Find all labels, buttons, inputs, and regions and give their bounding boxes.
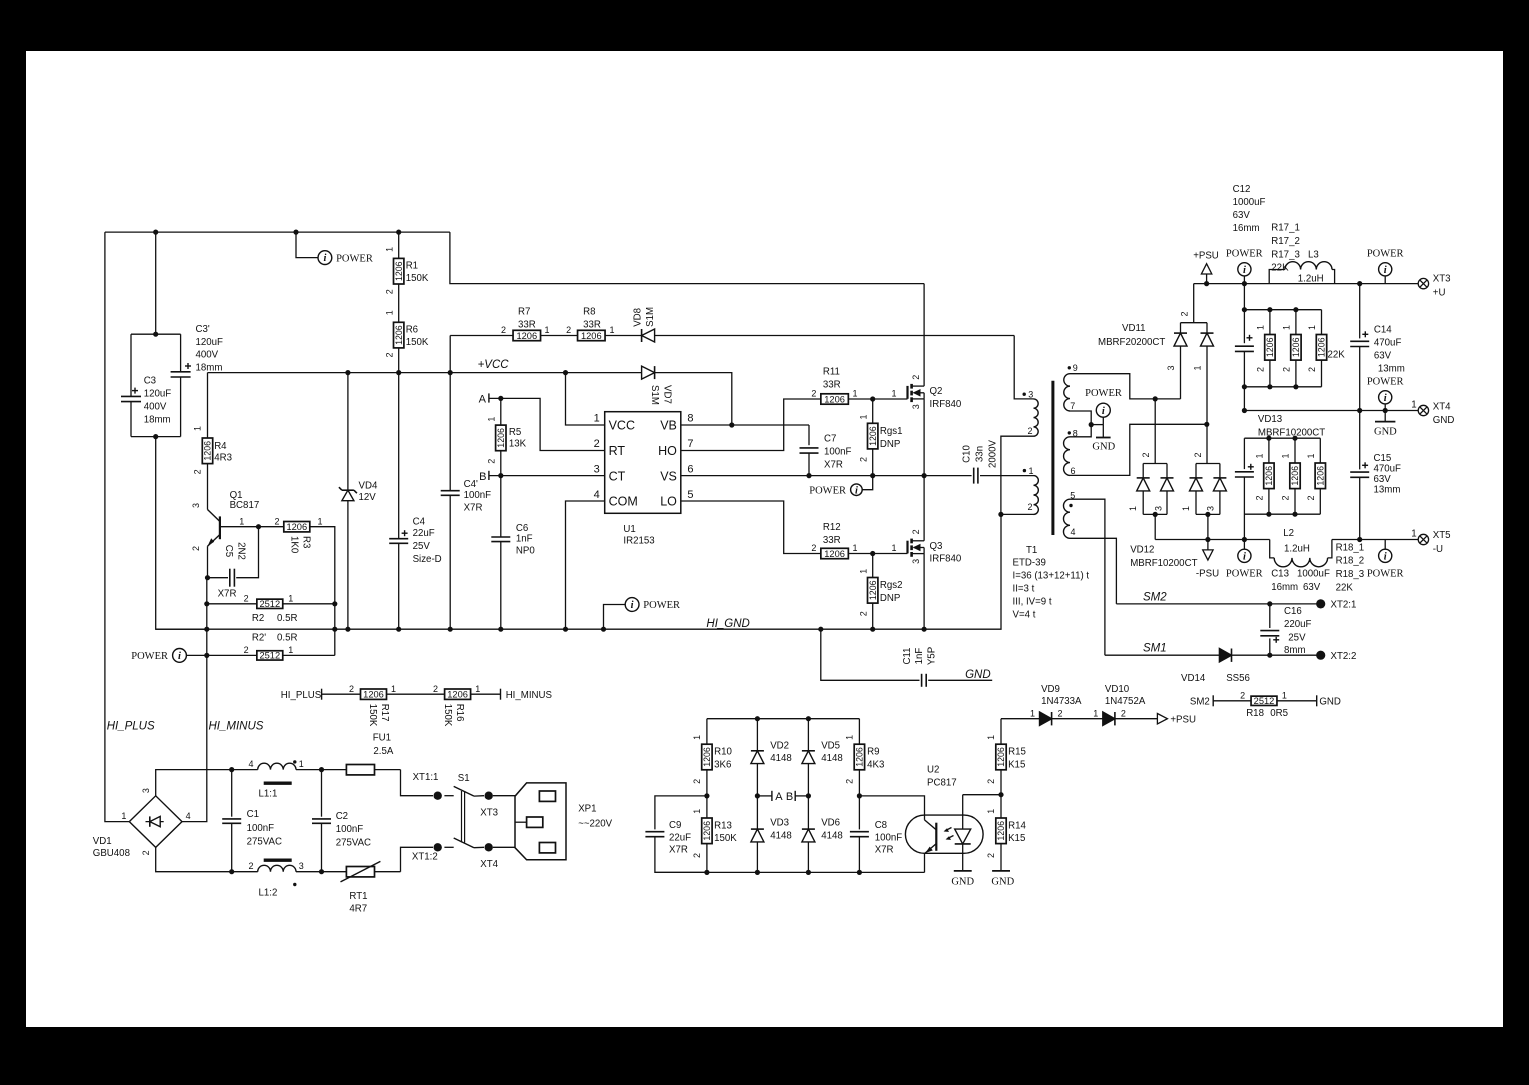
svg-text:I=36 (13+12+11) t: I=36 (13+12+11) t [1013,571,1090,582]
wire VD8 to T1 pin3 [1014,336,1033,399]
svg-text:2: 2 [1180,311,1190,316]
svg-text:~~220V: ~~220V [578,818,612,829]
power probe POWER at GND line [1384,404,1386,411]
svg-text:2.5A: 2.5A [373,746,393,757]
svg-text:i: i [1384,551,1387,562]
svg-text:150K: 150K [442,704,453,727]
svg-text:MBRF10200CT: MBRF10200CT [1130,558,1197,569]
svg-text:1206: 1206 [203,441,213,461]
svg-text:63V: 63V [1233,210,1251,221]
resistor R17_1 [1269,310,1271,335]
svg-text:X7R: X7R [464,502,483,513]
svg-text:4148: 4148 [821,753,843,764]
svg-text:A: A [775,791,783,803]
svg-text:2: 2 [192,469,202,474]
svg-text:HI_PLUS: HI_PLUS [107,721,155,733]
resistor R15 K15 [1000,719,1002,745]
svg-text:100nF: 100nF [336,824,364,835]
svg-text:VD2: VD2 [770,740,789,751]
wire R3 to R2 right node [310,527,335,656]
svg-text:1: 1 [853,389,858,399]
svg-text:1: 1 [1307,325,1317,330]
svg-text:R12: R12 [823,522,841,533]
svg-text:+PSU: +PSU [1170,714,1196,725]
svg-text:R18_3: R18_3 [1336,569,1365,580]
svg-text:HO: HO [658,444,677,458]
svg-text:2: 2 [191,546,201,551]
svg-text:1: 1 [1282,325,1292,330]
svg-text:1: 1 [891,389,896,399]
svg-text:C1: C1 [247,809,259,820]
svg-text:VD10: VD10 [1105,684,1130,695]
svg-text:GND: GND [951,876,974,887]
resistor R4 [207,373,209,438]
svg-text:II=3 t: II=3 t [1013,584,1035,595]
inductor L1:1 [229,767,234,772]
svg-text:MBRF20200CT: MBRF20200CT [1098,337,1165,348]
net -PSU arrow [1205,537,1210,542]
connector XP1 ~~220V [493,795,540,797]
svg-text:-PSU: -PSU [1196,568,1219,579]
svg-text:2: 2 [1256,367,1266,372]
svg-text:B: B [786,791,793,803]
svg-text:R17_1: R17_1 [1271,223,1300,234]
svg-text:R7: R7 [518,306,530,317]
svg-text:2: 2 [141,850,151,855]
svg-text:C5: C5 [223,545,234,557]
svg-text:2: 2 [811,543,816,553]
svg-text:C10: C10 [962,445,973,463]
svg-text:L1:1: L1:1 [259,789,278,800]
svg-text:2: 2 [858,611,868,616]
svg-text:R6: R6 [406,324,418,335]
svg-text:1: 1 [1093,708,1098,718]
resistor array R18 top bar [1244,437,1320,439]
svg-text:1: 1 [986,809,996,814]
svg-text:1: 1 [318,516,323,526]
svg-text:1: 1 [299,759,304,769]
svg-text:POWER: POWER [1367,377,1404,388]
svg-text:R17_3: R17_3 [1271,249,1300,260]
svg-text:1: 1 [384,310,394,315]
svg-text:XT5: XT5 [1433,530,1451,541]
wire R7 R8 VD8 row [450,335,513,337]
resistor R3 1K0 [259,526,284,528]
svg-text:4: 4 [248,759,253,769]
svg-text:POWER: POWER [1226,249,1263,260]
svg-text:VD5: VD5 [821,740,840,751]
svg-text:22K: 22K [1328,350,1346,361]
svg-text:400V: 400V [196,350,219,361]
resistor R6 [398,284,400,322]
svg-text:2: 2 [986,779,996,784]
svg-text:1: 1 [610,325,615,335]
svg-text:13mm: 13mm [1378,364,1405,375]
svg-text:470uF: 470uF [1374,338,1402,349]
svg-text:VD13: VD13 [1258,414,1282,425]
terminal XT2:2 [1316,651,1325,660]
svg-text:4K3: 4K3 [867,759,884,770]
svg-text:L1:2: L1:2 [259,888,278,899]
net SM2 line to XT2:1 [1116,603,1317,605]
svg-text:2: 2 [501,325,506,335]
capacitor C1 100nF 275VAC [231,770,233,817]
resistor R17_3 [1321,310,1323,335]
svg-text:2: 2 [845,779,855,784]
svg-text:1: 1 [239,516,244,526]
svg-text:120uF: 120uF [196,337,224,348]
svg-text:1: 1 [1030,708,1035,718]
svg-text:SS56: SS56 [1226,673,1250,684]
svg-text:22uF: 22uF [669,833,691,844]
svg-text:1206: 1206 [363,690,384,700]
svg-text:1206: 1206 [996,821,1006,841]
svg-text:i: i [1243,551,1246,562]
resistor R17 150K jumper [361,689,387,699]
wire VD9 VD10 line [1001,718,1040,720]
svg-text:2: 2 [1058,708,1063,718]
svg-text:i: i [1384,265,1387,276]
svg-text:i: i [1384,393,1387,404]
svg-text:R9: R9 [867,747,879,758]
svg-text:NP0: NP0 [516,545,535,556]
svg-text:3: 3 [299,861,304,871]
resistor R16 150K jumper [445,689,471,699]
svg-text:XP1: XP1 [578,803,596,814]
svg-text:DNP: DNP [880,593,900,604]
ground GND under U2 LED [954,870,972,872]
svg-text:2000V: 2000V [987,439,998,468]
svg-text:C8: C8 [875,820,887,831]
svg-text:C12: C12 [1233,184,1251,195]
svg-text:C13: C13 [1271,568,1289,579]
power probe POWER at -U rail [1242,537,1247,542]
svg-text:3: 3 [911,404,921,409]
svg-text:2: 2 [486,459,496,464]
svg-text:220uF: 220uF [1284,619,1312,630]
op-amp U1 IR2153 box [605,412,681,514]
svg-text:1206: 1206 [868,426,878,446]
capacitor C3' [180,334,182,372]
capacitor C11 1nF Y5P to GND [821,629,920,680]
svg-text:VCC: VCC [609,418,635,432]
svg-text:100nF: 100nF [464,490,492,501]
fuse FU1 2.5A [322,769,401,771]
svg-text:2: 2 [1306,495,1316,500]
diode VD5 4148 [807,719,809,751]
resistor R12 33R [821,548,849,558]
svg-text:1206: 1206 [996,747,1006,767]
svg-text:S1M: S1M [645,307,656,327]
svg-text:6: 6 [1071,466,1076,476]
svg-text:1206: 1206 [286,522,307,532]
svg-text:1206: 1206 [868,580,878,600]
svg-text:1206: 1206 [702,821,712,841]
svg-text:3K6: 3K6 [714,759,731,770]
svg-text:1000uF: 1000uF [1297,568,1330,579]
power probe POWER at HI_GND [604,605,626,630]
svg-text:A: A [479,394,487,406]
svg-text:9: 9 [1073,363,1078,373]
svg-text:III, IV=9 t: III, IV=9 t [1013,596,1052,607]
svg-text:1N4752A: 1N4752A [1105,696,1146,707]
svg-text:1206: 1206 [1291,337,1301,357]
svg-text:1nF: 1nF [914,648,925,665]
capacitor C10 33n 2000V [973,468,975,484]
svg-text:POWER: POWER [1367,249,1404,260]
terminal XT5 -U [1418,534,1428,544]
resistor R1 [398,232,400,258]
wire LO line to R12 [681,501,821,554]
svg-text:B: B [479,471,486,483]
transistor Q3 IRF840 [906,541,908,554]
diode VD14 SS56 [1231,649,1233,662]
resistor R18 0R5 [1251,696,1277,705]
svg-text:1: 1 [1281,453,1291,458]
svg-text:C2: C2 [336,811,348,822]
svg-text:FU1: FU1 [373,733,391,744]
svg-text:6: 6 [687,463,693,475]
svg-text:1206: 1206 [394,261,404,281]
svg-text:2: 2 [594,438,600,450]
svg-text:2: 2 [566,325,571,335]
svg-text:XT1:1: XT1:1 [413,772,439,783]
svg-text:4148: 4148 [770,753,792,764]
power probe POWER at R2' [186,654,206,656]
svg-text:3: 3 [1166,365,1176,370]
net SM1 line to XT2:2 [1105,654,1220,656]
svg-text:LO: LO [660,495,677,509]
ground GND at secondary center tap [1102,425,1104,438]
net +PSU arrow at VD10 [1157,714,1167,724]
svg-text:VD8: VD8 [632,308,643,327]
svg-text:16mm: 16mm [1233,223,1260,234]
wire GND line to XT4 [1244,410,1418,412]
svg-text:XT3: XT3 [1433,273,1451,284]
svg-text:POWER: POWER [336,253,373,264]
svg-text:IR2153: IR2153 [623,536,654,547]
resistor array R17 top bar [1244,309,1321,311]
wire feedback top rail [707,718,860,720]
svg-text:1000uF: 1000uF [1233,197,1266,208]
inductor L2 1.2uH [1270,540,1275,558]
svg-text:R15: R15 [1008,747,1026,758]
svg-text:4: 4 [594,489,600,501]
terminal XT2:1 [1316,599,1325,608]
svg-text:RT1: RT1 [349,891,367,902]
svg-text:1: 1 [986,735,996,740]
svg-text:150K: 150K [406,273,429,284]
svg-text:1: 1 [486,417,496,422]
ground GND under R14 [992,870,1010,872]
resistor R13 150K [706,796,708,818]
svg-text:3: 3 [911,559,921,564]
svg-text:33R: 33R [823,379,841,390]
svg-text:2: 2 [1282,367,1292,372]
svg-text:2: 2 [244,645,249,655]
svg-text:VS: VS [660,469,677,483]
power probe POWER right of L3 [1384,276,1386,284]
svg-text:i: i [855,485,858,496]
svg-text:C9: C9 [669,820,681,831]
svg-text:Rgs1: Rgs1 [880,426,903,437]
svg-text:1: 1 [288,593,293,603]
svg-text:VD11: VD11 [1122,323,1146,334]
node A tick at feedback [755,793,760,798]
svg-text:1.2uH: 1.2uH [1298,273,1324,284]
svg-text:2: 2 [692,853,702,858]
svg-text:C15: C15 [1374,453,1392,464]
wire VS switch node line [681,475,972,477]
wire U1 VCC riser [566,373,605,425]
svg-text:3: 3 [141,788,151,793]
resistor R7 33R [513,330,541,340]
svg-text:R4: R4 [214,441,227,452]
svg-text:2: 2 [384,352,394,357]
diode VD8 S1M [641,329,643,342]
svg-text:2: 2 [1141,452,1151,457]
diode VD9 1N4733A [1051,712,1053,725]
svg-text:POWER: POWER [643,600,680,611]
svg-text:VD12: VD12 [1130,544,1154,555]
svg-text:12V: 12V [359,492,377,503]
capacitor C12 1000uF [1243,284,1245,344]
svg-text:18mm: 18mm [144,414,171,425]
svg-text:C3': C3' [196,324,210,335]
svg-text:100nF: 100nF [247,823,275,834]
svg-text:33R: 33R [518,319,536,330]
svg-text:POWER: POWER [1226,569,1263,580]
svg-text:C4': C4' [464,479,478,490]
svg-text:33R: 33R [583,319,601,330]
svg-text:275VAC: 275VAC [336,838,371,849]
diode VD2 4148 [756,719,758,751]
svg-text:2: 2 [275,516,280,526]
svg-text:2: 2 [692,779,702,784]
svg-text:1: 1 [384,247,394,252]
svg-text:R2': R2' [252,633,266,644]
svg-text:POWER: POWER [809,485,846,496]
svg-text:i: i [1102,406,1105,417]
svg-text:1: 1 [853,543,858,553]
net +PSU arrow [1204,281,1209,286]
svg-text:1K0: 1K0 [289,536,300,554]
resistor R18_2 [1294,438,1296,463]
svg-text:DNP: DNP [880,439,900,450]
svg-text:1: 1 [1411,529,1416,540]
svg-text:HI_PLUS: HI_PLUS [281,690,322,701]
wire U1 COM to HI_GND [566,501,605,629]
svg-text:+U: +U [1433,287,1446,298]
svg-text:2: 2 [986,853,996,858]
svg-text:GND: GND [991,876,1014,887]
svg-text:2: 2 [244,593,249,603]
svg-text:IRF840: IRF840 [930,554,962,565]
svg-text:1N4733A: 1N4733A [1041,696,1082,707]
svg-text:POWER: POWER [1085,388,1122,399]
svg-text:-U: -U [1433,544,1443,555]
svg-text:1.2uH: 1.2uH [1284,543,1310,554]
wire feedback bottom rail [655,871,925,873]
svg-text:0.5R: 0.5R [277,613,297,624]
svg-text:4R7: 4R7 [349,904,367,915]
svg-text:XT4: XT4 [480,859,498,870]
svg-text:GND: GND [1319,696,1341,707]
svg-text:1: 1 [391,684,396,694]
terminal XT3 +U [1418,278,1428,288]
svg-text:1: 1 [192,426,202,431]
svg-text:C7: C7 [824,433,836,444]
svg-text:1: 1 [1256,325,1266,330]
svg-text:R13: R13 [714,820,732,831]
svg-text:4: 4 [1071,527,1076,537]
svg-text:1: 1 [545,325,550,335]
svg-text:XT1:2: XT1:2 [412,852,438,863]
diode VD10 1N4752A [1114,712,1116,725]
svg-text:C3: C3 [144,376,156,387]
svg-text:K15: K15 [1008,833,1025,844]
svg-text:1206: 1206 [516,331,537,341]
svg-text:R17_2: R17_2 [1271,236,1300,247]
resistor R5 13K [500,398,502,425]
svg-text:C14: C14 [1374,325,1392,336]
svg-text:SM1: SM1 [1143,643,1167,655]
svg-text:R10: R10 [714,747,732,758]
wire Q1 emitter to bridge [182,578,207,822]
svg-text:R17: R17 [379,704,390,722]
diode VD6 4148 [807,796,809,829]
svg-text:VD1: VD1 [93,836,112,847]
svg-text:L2: L2 [1283,528,1294,539]
svg-text:XT2:1: XT2:1 [1331,600,1357,611]
svg-text:25V: 25V [1288,633,1306,644]
svg-text:2: 2 [858,457,868,462]
svg-text:1206: 1206 [1290,466,1300,486]
diode VD7 S1M [654,366,656,379]
svg-text:Q2: Q2 [930,386,943,397]
inductor L3 1.2uH [1269,270,1285,284]
svg-text:R5: R5 [509,427,521,438]
svg-text:U2: U2 [927,765,939,776]
svg-text:HI_MINUS: HI_MINUS [209,721,264,733]
svg-text:8: 8 [687,413,693,425]
svg-text:POWER: POWER [1367,569,1404,580]
svg-text:2: 2 [1027,426,1032,436]
wire -U rail [1155,539,1270,541]
svg-text:5: 5 [687,489,693,501]
svg-text:i: i [323,253,326,264]
wire HV+ step to Q2 drain [450,232,924,284]
svg-text:1: 1 [858,414,868,419]
inductor L1:2 [229,869,234,874]
resistor R8 33R [578,330,606,340]
svg-text:Y5P: Y5P [927,647,938,665]
transistor Q1 BC817 [207,464,209,510]
svg-text:VD9: VD9 [1041,684,1060,695]
svg-text:7: 7 [1070,401,1075,411]
svg-text:100nF: 100nF [824,446,852,457]
svg-text:XT4: XT4 [1433,401,1451,412]
svg-text:8mm: 8mm [1284,645,1306,656]
svg-text:63V: 63V [1303,582,1321,593]
resistor Rgs1 DNP [872,399,874,423]
svg-text:2: 2 [1240,690,1245,700]
svg-text:1: 1 [1181,506,1191,511]
svg-text:1206: 1206 [824,549,845,559]
capacitor C8 100nF [858,796,860,830]
svg-text:R18_2: R18_2 [1336,556,1365,567]
wire bridge pin2 to AC line [156,847,232,871]
